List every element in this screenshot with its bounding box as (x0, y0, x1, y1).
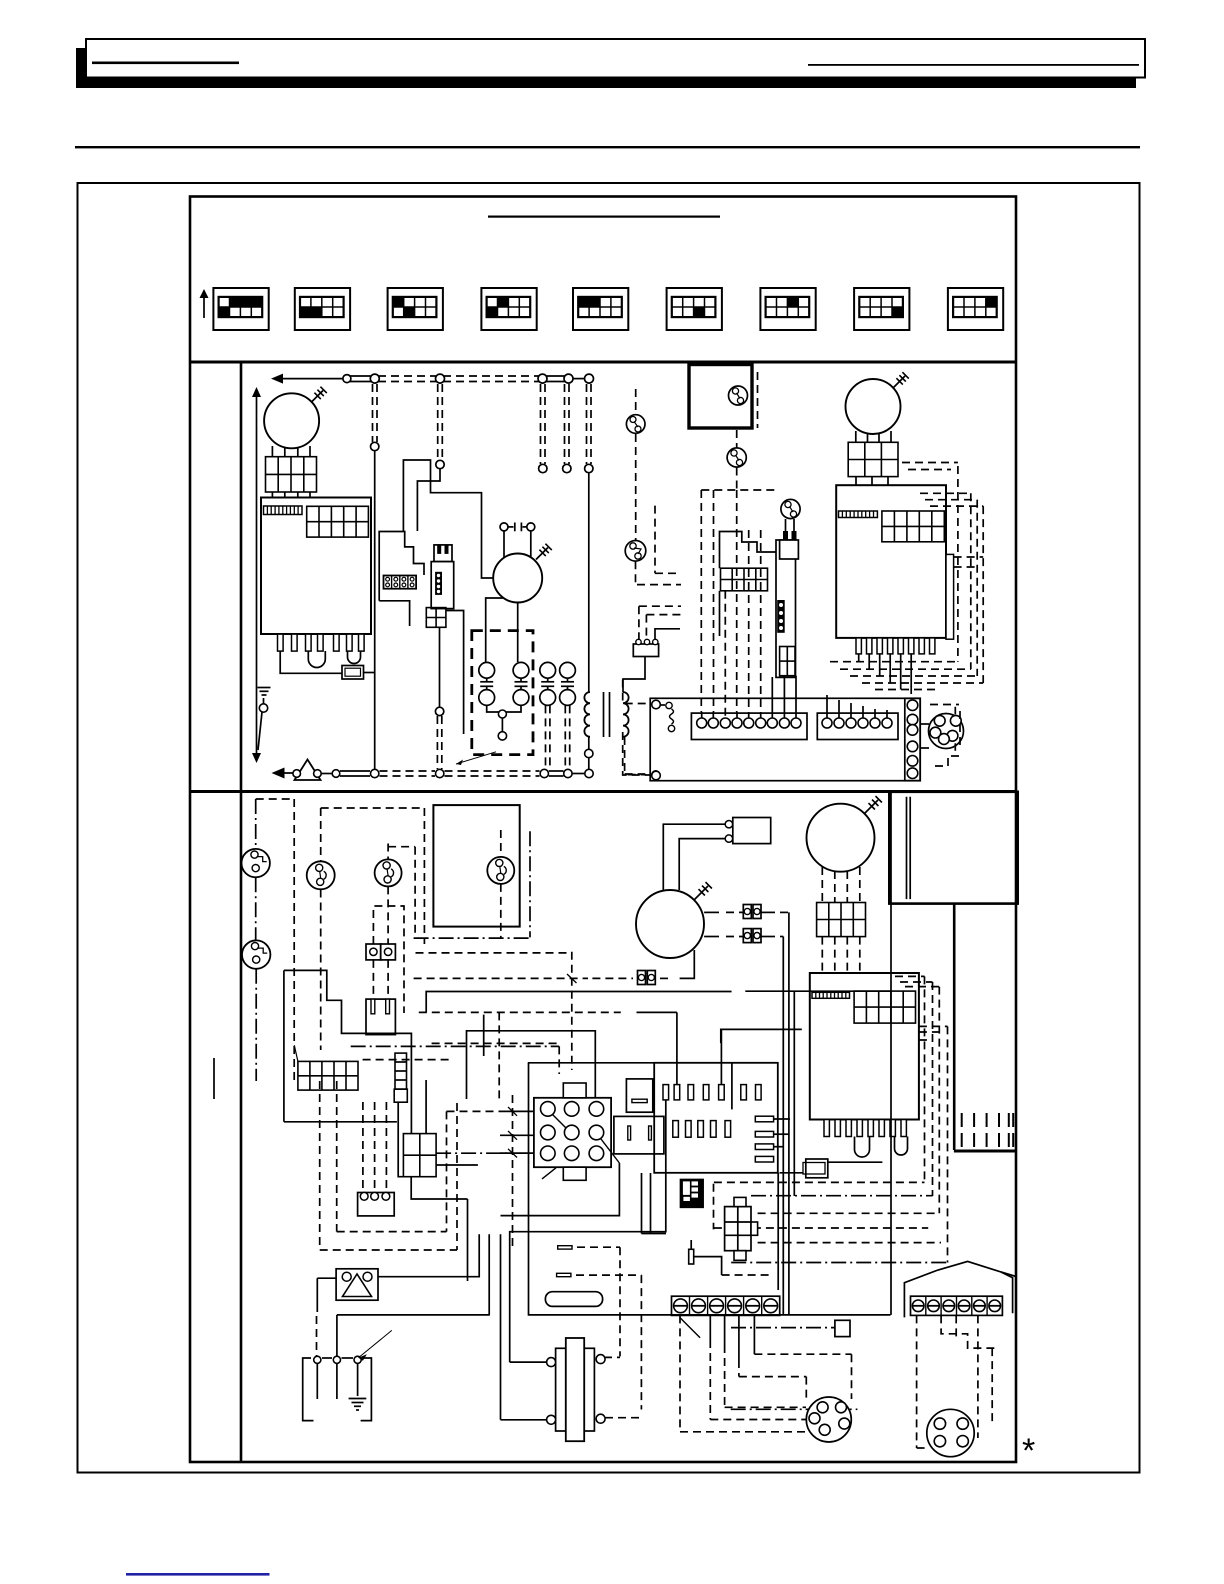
transformer T1 (584, 692, 628, 737)
relay K3 lower (614, 1116, 664, 1154)
header right rule (808, 64, 1139, 66)
dip switch S4 (481, 288, 536, 330)
motor M5 (636, 882, 712, 958)
rollout wires (317, 1234, 480, 1356)
wire drop W1 (bus to fuse line) (371, 384, 379, 769)
U2 bottom pins (856, 638, 935, 654)
ground symbol G2 (349, 1399, 367, 1411)
right duct box with comb (954, 904, 1016, 1151)
U1 pin1 wire to fuse (280, 651, 342, 673)
stepped feeder wire (284, 970, 412, 1133)
vertical strip connector (394, 1053, 407, 1102)
T2 lead wires (501, 1362, 547, 1420)
CN1 dashed outline (930, 705, 960, 767)
connector CN2 2-pin (366, 944, 395, 960)
U1 edge connector comb (264, 506, 303, 515)
ground symbol G1 (258, 688, 271, 751)
sensor square (731, 1320, 850, 1336)
oval (wire label) (545, 1292, 602, 1307)
enclosure left x528 (528, 1063, 530, 1316)
dashed bus bottom links (830, 662, 983, 690)
limit switch LS1 (242, 849, 270, 877)
dashed y1043 and dash-dot y1046 (351, 1043, 561, 1074)
plug P3 (366, 999, 395, 1035)
connector J2 3-pin (633, 639, 658, 656)
C3 C4 drop wires to bus (546, 705, 570, 768)
dip switch S8 (854, 288, 909, 330)
9-pin exit wires (501, 1100, 667, 1362)
U2 side tab (946, 554, 954, 639)
dip switch S9 (948, 288, 1003, 330)
L4 wires (736, 430, 738, 490)
horizontal page rule (75, 146, 1140, 148)
main board U4 (654, 1063, 778, 1173)
legend title line (488, 216, 720, 218)
fuse F2 (780, 1159, 883, 1178)
L2 tail wire (636, 561, 682, 584)
U3 bottom pins (824, 1120, 906, 1137)
wire drops W3 W4 W5 (bus plugs) (539, 384, 593, 473)
U1 pin jumper loops (308, 651, 360, 668)
M2 left feed wire (403, 460, 493, 578)
lamp L1 (626, 415, 645, 434)
valve 2x2 block (780, 647, 795, 676)
thermostat hood outline (904, 1261, 1016, 1317)
CN4 left feed stubs (500, 1111, 534, 1153)
lamp L7 (375, 859, 402, 886)
verticals x467 x483 x499 (468, 1012, 501, 1419)
enclosure right x891 (890, 793, 892, 1315)
lamp L2 (625, 541, 646, 562)
wire from 2x2 block bottom (435, 627, 443, 769)
long wire y991 (426, 991, 891, 1012)
power plug 3-pin (303, 1356, 372, 1420)
terminal strip TS2 (817, 713, 898, 739)
lamp L4 (727, 448, 746, 467)
dashed trunk x320 (321, 808, 425, 1050)
relay module K1 (431, 562, 454, 609)
nested dashed boxes SW area (320, 1081, 457, 1250)
terminal strip TS5 (911, 1296, 1003, 1315)
control board U1 (261, 498, 371, 635)
control board U3 (810, 973, 919, 1120)
mid section divider (190, 790, 1016, 793)
terminal grid TB4 (298, 1061, 358, 1090)
dashed bus verticals right (958, 466, 983, 683)
transformer T2 (547, 1338, 606, 1441)
motor M2 inducer (493, 544, 552, 603)
motor M3 (846, 372, 909, 434)
U4 right side links (774, 1119, 790, 1147)
CN2 dashed box (373, 906, 404, 1013)
left column tick mark (213, 1058, 215, 1099)
dashed trunk x571 (567, 952, 577, 1070)
dip switch S5 (573, 288, 628, 330)
M5 right plugs row1 (704, 905, 789, 919)
DIP switch S10 (680, 1179, 703, 1207)
delta symbol (295, 760, 321, 781)
TS5 drop wires (917, 1315, 995, 1448)
dashed staircase to CN5 (680, 1354, 852, 1432)
M4 lead wires (dashed) (822, 867, 860, 903)
M1 block to board wires (272, 492, 310, 498)
C6 wires to M5 (663, 824, 725, 891)
capacitor C3 (540, 662, 556, 705)
igniter block (cross shape) (725, 1197, 758, 1260)
plug P2 with prongs (780, 519, 799, 559)
TB3 left dashed leads (623, 680, 651, 776)
dashed links near relay K2 (436, 1103, 508, 1250)
strip-to-K2 wire (398, 1102, 403, 1177)
M5 right plugs row2 (704, 929, 783, 943)
dip switch S3 (388, 288, 443, 330)
blue footer link line (126, 1573, 270, 1576)
relay block 2x2 K2 (403, 1134, 436, 1177)
dashed box around igniter (714, 1184, 773, 1275)
disconnect switch SW1 (500, 523, 535, 532)
callout pointer line (456, 752, 496, 765)
U3 right dashed harness (895, 976, 948, 1262)
terminal strip TS4 (672, 1296, 780, 1315)
M3 lead wires (856, 431, 891, 442)
valve drop wires (772, 676, 796, 712)
lamp L5 (781, 499, 800, 518)
lamp L3 in box (729, 386, 748, 405)
dip switch S6 (667, 288, 722, 330)
U3 pin jumper loops (855, 1137, 908, 1158)
dip switch S7 (760, 288, 815, 330)
lamp L8 (487, 857, 514, 884)
L1 wires (635, 389, 637, 540)
dash-dot trunk through LS1 LS2 (255, 799, 258, 1081)
CN3 feed dashes (363, 1102, 387, 1192)
gas valve outline (720, 532, 796, 678)
plug P1 with prongs (434, 545, 452, 562)
harness return lines (dashed/dash-dot) (714, 1182, 948, 1262)
capacitor box (dashed) (472, 631, 533, 755)
capacitor C6 (725, 818, 771, 844)
igniter module shape (379, 532, 424, 627)
wire W6 column (585, 473, 593, 769)
capacitor C4 (560, 662, 576, 705)
board top rail y1062.8 (528, 1062, 654, 1064)
U3 terminal grid (854, 991, 915, 1023)
junction box (top right of lower half) (889, 792, 1017, 904)
TB3 plug and coil (652, 700, 675, 732)
dashed trunk x512 with crossings (508, 1095, 517, 1250)
capacitor C5 (689, 1240, 722, 1275)
connector block 2x2 (426, 608, 446, 628)
motor M1 blower (264, 387, 327, 449)
M4 terminal block (817, 903, 866, 937)
top bus wire segments (350, 376, 586, 382)
U4 top feed wires (677, 1012, 722, 1084)
K2 wires (411, 1080, 478, 1199)
long verticals right-center (783, 912, 794, 1315)
header left rule (92, 62, 239, 65)
U2 pin drop wires (859, 654, 912, 694)
top bus left arrow (271, 374, 347, 384)
wire from 2x2 block right (446, 611, 464, 735)
terminal grid TB2 (721, 568, 768, 591)
low-voltage terminal board TB3 (650, 698, 920, 780)
dashed harness verticals (center) (701, 490, 776, 712)
M1 terminal block (266, 457, 317, 492)
dashed bus top links (902, 463, 983, 568)
capacitor C1 (479, 662, 495, 705)
asterisk footnote (1022, 1432, 1035, 1470)
slot lug 2 (557, 1273, 642, 1417)
round connector CN6 (917, 1409, 975, 1456)
9-pin connector CN4 (534, 1083, 620, 1180)
U1 bottom pins (278, 634, 365, 651)
M4 block drop wires (822, 937, 860, 973)
control board U2 (836, 485, 946, 638)
TS1 riser dashes (702, 591, 796, 718)
lamp L6 (307, 861, 335, 889)
motor M4 (807, 796, 882, 872)
legend band divider (190, 361, 1016, 364)
wire y1012 (419, 1011, 677, 1013)
header shadow bar (76, 48, 1136, 88)
dip switch S2 (295, 288, 350, 330)
U2 terminal grid (882, 511, 944, 542)
U3 edge comb (812, 992, 850, 998)
terminal strip TS1 (691, 713, 807, 739)
M3 block to board wires (856, 477, 888, 486)
L7 L8 stems (388, 830, 501, 944)
U2 edge comb (839, 511, 878, 518)
outer border rectangle (78, 183, 1140, 1473)
U1 terminal grid (307, 506, 369, 537)
svg-text:*: * (1022, 1432, 1035, 1470)
capacitor C2 (513, 662, 529, 705)
M3 terminal block (848, 442, 898, 476)
T1 secondary wires (623, 657, 645, 774)
M1 lead wires (272, 446, 310, 457)
dash-dot enclosure around door box (388, 831, 530, 938)
SW1 wires to motor M2 (504, 531, 531, 559)
round connector CN5 (806, 1397, 851, 1442)
long vertical wire x778 (777, 1173, 779, 1290)
connector CN3 3-pin (358, 1192, 395, 1216)
legend up arrow (200, 289, 209, 318)
slot lug 1 (558, 1246, 620, 1358)
inner diagram frame (190, 197, 1016, 1463)
door switch box (433, 805, 519, 927)
header title box (86, 39, 1145, 78)
round connector CN1 (920, 707, 963, 751)
C1 C2 link wires (487, 705, 521, 740)
dashed trunk x294 (256, 799, 295, 1081)
vertical terminal strip TS3 (905, 698, 920, 780)
dip switch S1 (213, 288, 268, 330)
enclosure bottom y1315.6 (337, 1314, 891, 1316)
fuse F1 (342, 666, 375, 680)
dash-dot line through CN5 (731, 1408, 858, 1410)
8-pin inline connector J1 (384, 576, 417, 589)
TB4 pointer (294, 1045, 298, 1061)
limit switch LS2 (242, 940, 270, 968)
rollout switch (triangle in box) (336, 1269, 378, 1300)
TS4 drop wires (680, 1315, 754, 1431)
TS2 riser wires (827, 695, 887, 718)
valve inner strip (777, 600, 785, 633)
dashed line y953 (416, 952, 568, 954)
TS4 pointer (680, 1317, 700, 1337)
vertical double arrow (blower section) (252, 387, 261, 763)
relay K3 upper (626, 1079, 652, 1112)
M5 bottom plug pair (414, 950, 695, 985)
wire y1314 left plug feed (336, 1315, 338, 1356)
wire y1030 (467, 1029, 802, 1099)
dashed drop x655 (655, 506, 681, 574)
wire drop W2 (bus to module) (417, 384, 444, 531)
bottom bus arrow (272, 768, 294, 779)
M2 bottom wires into capacitor box (486, 598, 518, 662)
left column divider (240, 362, 243, 1462)
top bus junction nodes (343, 374, 594, 383)
CN2 drop wires (373, 960, 388, 999)
TB3 lower-left pin (652, 771, 661, 780)
dashes to terminal board (628, 771, 660, 779)
J2 feed wires (dashed) (639, 606, 681, 639)
pressure switch box (thick) (689, 365, 758, 429)
pointer to plug (358, 1330, 391, 1360)
bottom bus segments and nodes (293, 769, 593, 777)
